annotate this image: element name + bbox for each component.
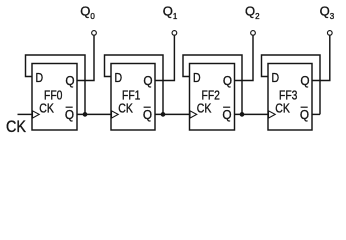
svg-text:Q: Q xyxy=(65,73,74,88)
svg-text:D: D xyxy=(36,70,44,85)
svg-text:CK: CK xyxy=(118,100,133,115)
svg-text:Q: Q xyxy=(223,73,232,88)
wire FF0 Q-bar to D feedback loop xyxy=(26,55,86,114)
svg-text:Q1: Q1 xyxy=(163,3,178,20)
wire FF3 Q to terminal Q3 xyxy=(312,36,330,81)
terminal Q3 xyxy=(327,31,332,36)
wire FF3 Q-bar to D feedback loop xyxy=(262,55,321,114)
svg-text:Q: Q xyxy=(143,73,152,88)
wire FF1 Q-bar to D feedback loop xyxy=(105,55,164,114)
svg-text:CK: CK xyxy=(275,100,290,115)
svg-text:Q: Q xyxy=(143,107,152,122)
svg-text:Q: Q xyxy=(65,107,74,122)
wire FF2 Q-bar to D feedback loop xyxy=(183,55,242,114)
svg-text:D: D xyxy=(115,70,123,85)
terminal Q0 xyxy=(92,31,97,36)
junction FF2 Q-bar node xyxy=(240,112,245,117)
svg-text:Q: Q xyxy=(300,107,309,122)
flip-flop FF2 body xyxy=(190,64,235,131)
wire FF0 Q to terminal Q0 xyxy=(77,36,94,81)
svg-text:Q3: Q3 xyxy=(320,3,335,20)
junction FF0 Q-bar node xyxy=(83,112,88,117)
wire FF0 Q-bar to FF1 CK xyxy=(77,113,111,115)
wire FF1 Q to terminal Q1 xyxy=(155,36,174,81)
svg-text:Q: Q xyxy=(222,107,231,122)
svg-text:CK: CK xyxy=(197,100,212,115)
flip-flop FF1 body xyxy=(111,64,155,131)
FF1 clock edge triangle xyxy=(112,111,119,118)
svg-text:Q: Q xyxy=(300,73,309,88)
FF2 clock edge triangle xyxy=(190,111,197,118)
svg-text:D: D xyxy=(272,70,280,85)
terminal Q2 xyxy=(251,31,256,36)
terminal Q1 xyxy=(172,31,177,36)
svg-text:CK: CK xyxy=(6,118,26,136)
wire FF2 Q to terminal Q2 xyxy=(235,36,254,81)
svg-text:Q0: Q0 xyxy=(80,3,95,20)
wire FF3 Q-bar stub to loop xyxy=(312,113,320,115)
FF0 clock edge triangle xyxy=(33,111,40,118)
wire CK input xyxy=(18,113,33,115)
flip-flop FF0 body xyxy=(32,64,77,131)
wire FF1 Q-bar to FF2 CK xyxy=(155,113,190,115)
svg-text:Q2: Q2 xyxy=(245,3,260,20)
junction FF1 Q-bar node xyxy=(161,112,166,117)
FF3 clock edge triangle xyxy=(269,111,276,118)
svg-text:CK: CK xyxy=(39,100,54,115)
flip-flop FF3 body xyxy=(268,64,312,131)
wire FF2 Q-bar to FF3 CK xyxy=(235,113,269,115)
svg-text:D: D xyxy=(193,70,201,85)
